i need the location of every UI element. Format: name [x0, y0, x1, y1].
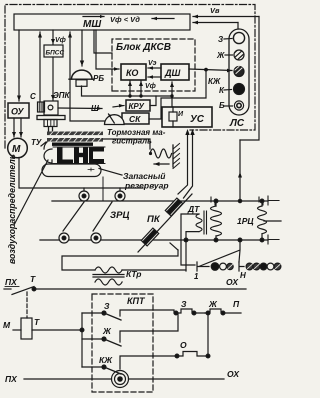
insulated joint rail1 at ДТ: [211, 197, 215, 205]
rail 2 (near): [40, 239, 268, 241]
svg-text:РБ: РБ: [93, 74, 104, 83]
svg-text:Vв: Vв: [210, 6, 220, 15]
svg-text:1РЦ: 1РЦ: [237, 216, 254, 226]
lamp/jack symbol bottom: [112, 371, 129, 388]
svg-text:О: О: [180, 340, 187, 350]
wire gauge to КРУ (arrow): [113, 106, 124, 108]
block КО: [121, 64, 146, 80]
label ЭПК: [53, 91, 71, 100]
lamp Ж (yellow, hatched): [234, 50, 244, 60]
wheelset 2: [115, 191, 125, 201]
pressure gauge: [105, 115, 125, 125]
label Т contact: [30, 274, 36, 284]
contact Т (ПХ line): [4, 288, 11, 290]
leader воздухораспределитель: [14, 160, 48, 225]
component И inside УС: [169, 112, 177, 121]
insulated joints right ends: [268, 196, 279, 244]
wire Ж cam to З-Ж junction: [153, 314, 178, 331]
wire Vв right riser: [240, 17, 259, 141]
КТр transformer: [126, 269, 142, 279]
svg-text:КЖ: КЖ: [208, 77, 221, 86]
svg-text:Ж: Ж: [102, 326, 112, 336]
wire ДТ secondary top to mast 1: [181, 214, 199, 265]
relay coil Т: [3, 320, 11, 330]
wire ДШ to КО upper (Vэ): [148, 67, 161, 69]
svg-text:Блок ДКСВ: Блок ДКСВ: [116, 42, 171, 53]
svg-text:Vэ: Vэ: [148, 60, 157, 67]
block MSh (speed comparison unit): [14, 14, 190, 30]
insulated joint rail1 at 1РЦ: [259, 197, 263, 205]
brake pipe (Тормозная магистраль) hatched: [47, 132, 103, 136]
svg-text:МШ: МШ: [83, 19, 101, 30]
svg-text:П: П: [233, 299, 240, 309]
wire ОХ line (КТр secondary): [33, 288, 246, 290]
svg-text:З: З: [104, 301, 110, 311]
wire СК to МШ (up arrow): [70, 32, 104, 121]
label ПК: [147, 214, 161, 225]
wire ДТ secondary bottom / rail riser: [186, 232, 199, 271]
label С (ЭПК coil): [30, 92, 36, 101]
svg-text:Vф: Vф: [145, 83, 156, 90]
КПТ cam contact Ж: [102, 326, 112, 336]
track circuit 1РЦ: [237, 216, 254, 226]
svg-text:Vф < Vд: Vф < Vд: [110, 15, 140, 24]
wire line B: КТр primary right to rail2: [122, 269, 186, 271]
ПК upper coil: [165, 198, 182, 216]
svg-text:КО: КО: [126, 68, 138, 78]
wire МШ to ДКСВ block edge: [94, 30, 112, 53]
wire arrow into КО bottom 2: [140, 81, 142, 96]
label ЛС: [229, 118, 245, 129]
wire mast H feed fork: [200, 240, 240, 266]
svg-text:ОХ: ОХ: [226, 277, 239, 287]
svg-text:М: М: [12, 144, 21, 155]
svg-text:З: З: [181, 299, 187, 309]
relay contact Ж (bridge): [206, 311, 210, 315]
rail 1 (far): [52, 200, 268, 202]
block ДШ: [161, 64, 189, 80]
label ЗРЦ: [110, 210, 129, 221]
КПТ cam contact КЖ: [99, 355, 113, 365]
svg-text:С: С: [30, 92, 36, 101]
wire ДШ output to КЖ lamp: [189, 69, 232, 71]
vertical label воздухораспределитель: [7, 154, 17, 264]
wire from ЛС common into МШ: [193, 22, 238, 24]
block УС: [162, 107, 212, 127]
label Vв: [210, 6, 220, 15]
svg-text:Т: Т: [34, 317, 40, 327]
signal lamp box ЛС (stadium): [229, 29, 249, 115]
svg-text:ЗРЦ: ЗРЦ: [110, 210, 129, 221]
svg-text:БПСС: БПСС: [46, 50, 65, 57]
svg-text:ПХ: ПХ: [5, 277, 18, 287]
wire КРУ right riser to bus: [150, 96, 156, 106]
reserve reservoir (Запасный резервуар): [42, 164, 101, 177]
brake cylinder assembly: [52, 143, 93, 146]
receiver coils ПК diagonal: [138, 194, 192, 252]
signal mast Н: [239, 262, 244, 271]
svg-text:СК: СК: [129, 114, 141, 124]
svg-text:Ш: Ш: [91, 104, 99, 113]
svg-text:гистраль: гистраль: [112, 137, 152, 146]
wire КЖ cam to О contact: [153, 355, 177, 357]
ЭПК flange: [37, 116, 65, 120]
block ОУ: [8, 103, 29, 118]
vigilance handle РБ: [72, 70, 93, 79]
hose wall with hatching: [172, 145, 174, 167]
wire О to З-Ж junction riser: [207, 313, 209, 356]
svg-text:ТУ: ТУ: [31, 138, 42, 147]
svg-text:ДШ: ДШ: [164, 68, 180, 78]
svg-text:1: 1: [194, 272, 199, 281]
svg-text:ОУ: ОУ: [11, 107, 24, 117]
signal mast 1: [197, 262, 209, 271]
wire branch down to СК: [149, 70, 206, 119]
wire М down to wheels line: [19, 158, 143, 189]
block КРУ: [126, 100, 150, 111]
svg-text:КРУ: КРУ: [129, 102, 145, 111]
block БПСС: [44, 45, 63, 57]
arrow left inside МШ: [152, 18, 174, 20]
block СК: [122, 113, 149, 124]
curved pipe left of cylinder: [44, 142, 52, 163]
svg-text:Ж: Ж: [208, 299, 218, 309]
КПТ cam contact З: [104, 301, 110, 311]
axle 1: [63, 202, 84, 231]
wire МШ to БПСС with Vф label: [52, 30, 54, 44]
svg-text:Vф: Vф: [55, 37, 66, 44]
label Vф < Vд: [110, 15, 140, 24]
wire УС up through РБ bus to ДШ (up arrow): [171, 82, 173, 107]
relay contact З (bridge): [174, 311, 178, 315]
wire МШ to КО (arrow): [96, 30, 119, 69]
ДТ secondary: [196, 214, 202, 232]
wire line A: КТр primary to ПК: [62, 250, 178, 270]
wire БПСС to ЭПК (down arrow): [52, 57, 54, 100]
lamp Б (white, double ring): [234, 101, 243, 110]
КПТ left bus: [81, 313, 83, 367]
svg-text:ЛС: ЛС: [229, 118, 245, 129]
wire ЭПК to pressure gauge: [58, 107, 102, 110]
svg-text:ОХ: ОХ: [227, 369, 240, 379]
svg-text:Н: Н: [240, 271, 246, 280]
svg-text:КПТ: КПТ: [127, 296, 146, 306]
ПХ bottom line: [5, 374, 18, 384]
mechanical link dashed: [26, 292, 28, 318]
label ТУ with arrow: [31, 138, 42, 147]
ЭПК stem to brake pipe: [49, 127, 53, 132]
svg-text:ЭПК: ЭПК: [53, 91, 71, 100]
svg-text:ПХ: ПХ: [5, 374, 18, 384]
wire arrow into КО bottom 1: [129, 81, 131, 96]
wire ОУ to М (two down arrows): [13, 118, 15, 137]
label Ш: [91, 104, 99, 113]
svg-text:воздухораспределитель: воздухораспределитель: [7, 154, 17, 264]
axle 2: [93, 202, 112, 231]
locomotive boundary frame (dash-dot): [5, 5, 255, 149]
wire З output: [153, 310, 174, 313]
lamp З (green, open): [233, 32, 244, 43]
ПК lower coil: [141, 228, 158, 246]
ДТ core: [204, 211, 207, 234]
ЭПК valve body: [44, 101, 58, 115]
brake hose coil: [149, 152, 152, 155]
svg-text:резервуар: резервуар: [124, 181, 169, 191]
wire Т coil to КПТ bus: [32, 329, 82, 331]
svg-text:ПК: ПК: [147, 214, 161, 225]
label МШ with vector arrow: [83, 19, 101, 30]
svg-text:Ж: Ж: [216, 51, 225, 60]
wire rail pickup riser with up arrow: [239, 140, 241, 201]
lamp КЖ (dark hatched): [234, 67, 244, 77]
dashed block ДКСВ boundary: [112, 39, 195, 91]
wire МШ to РБ (down arrow): [81, 30, 83, 66]
impedance bond / ДТ transformer: [187, 204, 200, 214]
dashed block КПТ: [92, 294, 153, 392]
wheelset 1: [79, 191, 89, 201]
lamp К (red, filled): [234, 84, 245, 95]
svg-text:З: З: [218, 35, 223, 44]
ЭПК valve: coil С (hatched): [38, 102, 45, 112]
svg-text:Запасный: Запасный: [123, 171, 166, 181]
svg-text:М: М: [3, 320, 11, 330]
wire ДШ to КО lower (Vф): [148, 76, 161, 78]
wire Vв from right into МШ: [193, 16, 259, 18]
wire ПК pair to УС bottom (up arrows): [178, 133, 188, 194]
wire ЭПК to МШ (up arrow): [39, 32, 41, 101]
svg-text:ДТ: ДТ: [187, 204, 200, 214]
motor М: [8, 138, 28, 158]
label ПХ top: [5, 277, 18, 287]
svg-text:Т: Т: [30, 274, 36, 284]
wire МШ to ОУ (down arrow): [18, 30, 20, 101]
air flow arrow: [154, 163, 169, 165]
wire ЛС top riser: [237, 23, 239, 30]
svg-text:УС: УС: [190, 114, 205, 125]
wire РБ down and right bus: [82, 86, 173, 96]
relay contact О (bridge): [175, 354, 179, 358]
ДТ main winding: [215, 201, 217, 206]
svg-text:КЖ: КЖ: [99, 355, 113, 365]
